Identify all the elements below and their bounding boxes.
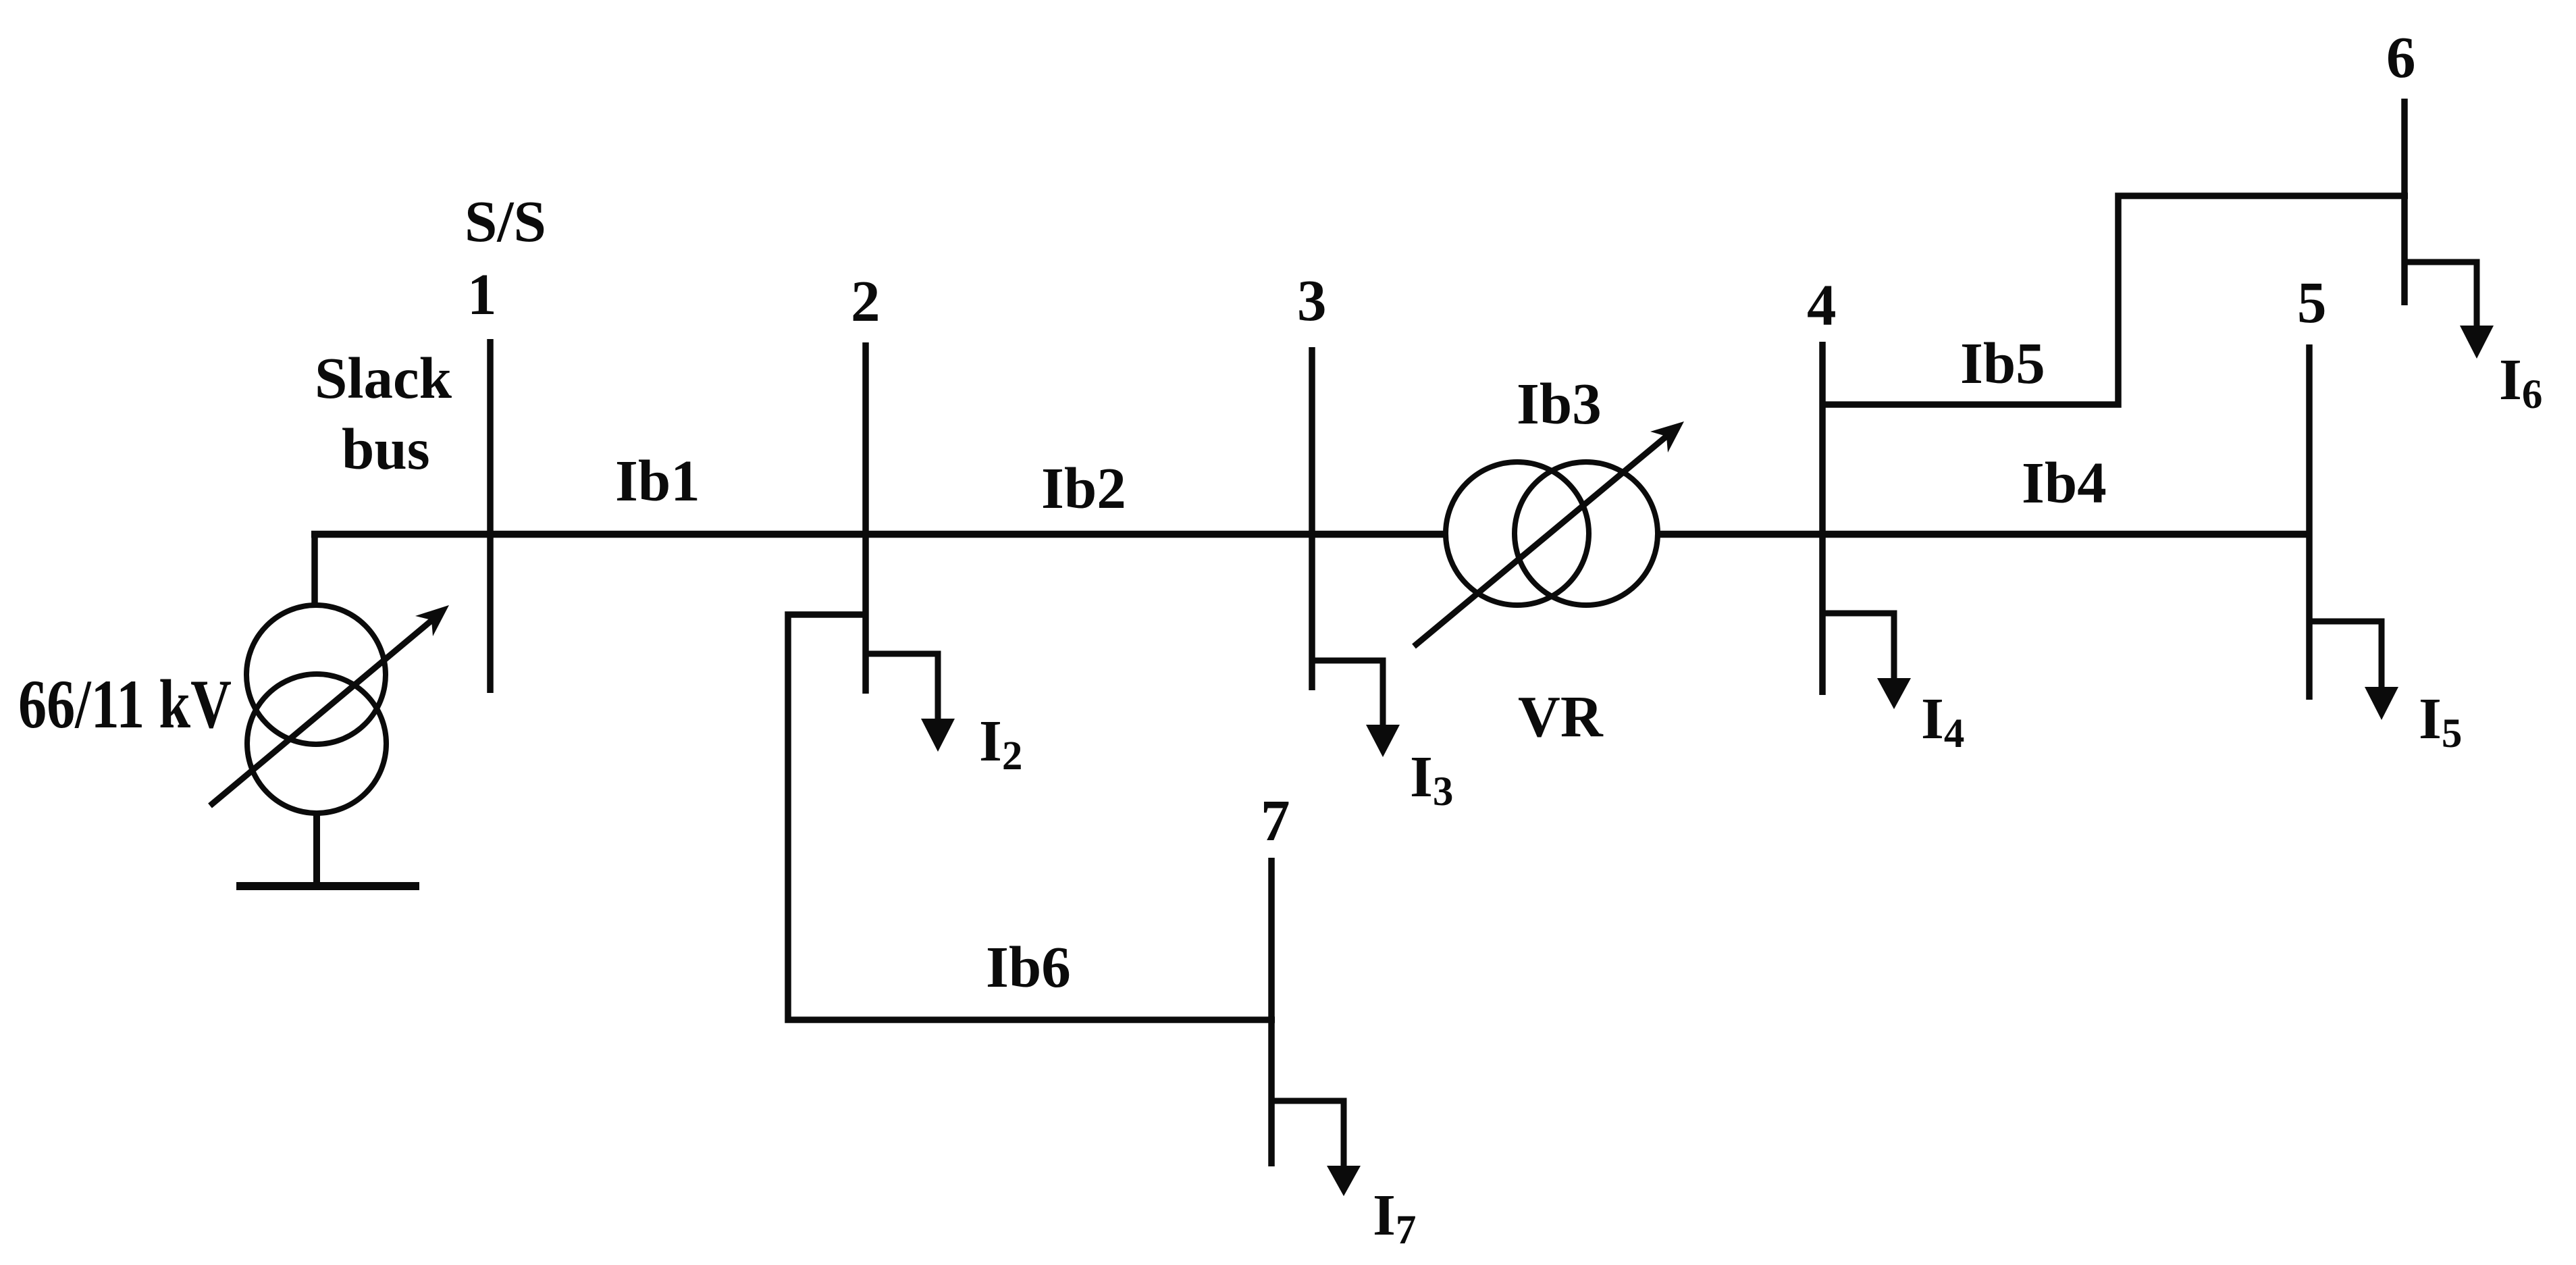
load I6 arrow bbox=[2404, 262, 2494, 359]
bus 7 bbox=[1268, 858, 1275, 1166]
svg-text:Slack: Slack bbox=[315, 345, 452, 411]
bus 2 bbox=[862, 342, 869, 694]
wire branch Ib5 bbox=[1822, 196, 2408, 405]
svg-text:Ib1: Ib1 bbox=[615, 448, 700, 513]
load I2 arrow bbox=[866, 654, 955, 752]
bus 3 bbox=[1309, 347, 1315, 690]
bus 4 bbox=[1819, 342, 1826, 695]
svg-text:6: 6 bbox=[2386, 24, 2416, 90]
svg-text:7: 7 bbox=[1261, 788, 1290, 853]
svg-text:Ib5: Ib5 bbox=[1960, 330, 2045, 396]
svg-text:VR: VR bbox=[1518, 683, 1604, 749]
svg-text:2: 2 bbox=[851, 268, 880, 334]
load I3 arrow bbox=[1312, 661, 1400, 757]
svg-text:Ib2: Ib2 bbox=[1041, 455, 1126, 521]
arrow T1 tap-changer bbox=[210, 605, 449, 806]
bus 5 bbox=[2306, 344, 2313, 700]
arrow VR tap-changer bbox=[1414, 421, 1684, 646]
load I7 arrow bbox=[1271, 1101, 1361, 1196]
wire main feeder (right of VR) bbox=[1655, 531, 2309, 538]
bus 1 bbox=[487, 339, 494, 693]
transformer VR (voltage regulator Ib3) bbox=[1446, 462, 1658, 605]
svg-text:5: 5 bbox=[2297, 269, 2327, 335]
ground bbox=[236, 882, 419, 890]
svg-text:66/11 kV: 66/11 kV bbox=[18, 666, 232, 743]
load I4 arrow bbox=[1822, 613, 1911, 709]
bus 6 bbox=[2401, 99, 2408, 305]
svg-text:S/S: S/S bbox=[465, 188, 546, 254]
svg-text:Ib4: Ib4 bbox=[2022, 450, 2107, 515]
wire slack drop bbox=[311, 531, 318, 606]
wire main feeder (left of VR) bbox=[311, 531, 1448, 538]
wire ground stem bbox=[313, 813, 320, 886]
wire branch Ib6 bbox=[788, 615, 1275, 1020]
svg-text:bus: bus bbox=[342, 416, 430, 482]
svg-text:4: 4 bbox=[1807, 272, 1837, 338]
transformer T1 (slack 66/11 kV) bbox=[246, 605, 386, 813]
svg-text:Ib6: Ib6 bbox=[986, 934, 1071, 1000]
svg-text:3: 3 bbox=[1297, 267, 1327, 333]
svg-text:1: 1 bbox=[467, 261, 497, 327]
load I5 arrow bbox=[2309, 621, 2398, 720]
svg-text:Ib3: Ib3 bbox=[1517, 371, 1602, 436]
